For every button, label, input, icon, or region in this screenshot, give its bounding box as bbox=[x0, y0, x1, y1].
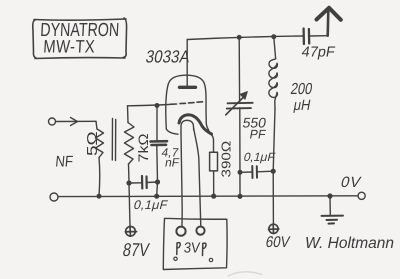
label 550 pF bbox=[241, 115, 267, 131]
wire coil node to 60V (crosses bus) bbox=[272, 171, 274, 224]
wire input with arrow bbox=[56, 120, 96, 122]
wire 550pF to bus bbox=[239, 108, 241, 196]
node 0.1uF right left-end bbox=[238, 171, 242, 175]
battery terminal left bbox=[176, 227, 185, 236]
label 47pF bbox=[300, 45, 336, 61]
filament thick arc bbox=[179, 115, 212, 134]
svg-text:60V: 60V bbox=[264, 234, 291, 251]
battery polarity mark left bbox=[177, 243, 180, 255]
NF label bbox=[55, 154, 74, 171]
node coil-0.1uF bbox=[271, 169, 275, 173]
wire filament to 390 resistor bbox=[211, 134, 214, 153]
battery terminal right bbox=[196, 227, 204, 235]
node grid / 4.7nF bbox=[155, 104, 159, 108]
node 0.1uF left bbox=[127, 181, 131, 185]
capacitor 0.1uF left bbox=[142, 176, 147, 189]
antenna bbox=[326, 11, 329, 36]
battery box bbox=[163, 218, 227, 269]
label 0V bbox=[339, 174, 363, 191]
svg-text:NF: NF bbox=[55, 154, 74, 171]
wire input corner down to primary bbox=[96, 121, 97, 129]
svg-text:MW-TX: MW-TX bbox=[43, 37, 96, 57]
title text DYNATRON bbox=[40, 19, 120, 40]
grid dashes bbox=[170, 102, 203, 105]
capacitor 0.1uF right bbox=[252, 166, 257, 178]
svg-text:0,1μF: 0,1μF bbox=[242, 150, 276, 164]
resistor 390 bbox=[210, 152, 218, 171]
tube label 3033A bbox=[144, 48, 191, 67]
wire to 550pF bbox=[238, 37, 240, 103]
terminal 60V bbox=[269, 224, 279, 234]
label 0.1uF left bbox=[132, 198, 169, 212]
svg-text:3033A: 3033A bbox=[144, 48, 191, 67]
NF input terminal top bbox=[49, 118, 56, 125]
terminal 87V bbox=[125, 227, 136, 237]
svg-text:47pF: 47pF bbox=[300, 45, 336, 61]
filament left leg to battery bbox=[181, 133, 182, 226]
transformer secondary winding 7k bbox=[125, 123, 135, 165]
wire grid horizontal bbox=[128, 105, 170, 106]
label 390ohm bbox=[219, 141, 234, 178]
variable capacitor 550pF plates bbox=[227, 103, 253, 109]
node primary-bus bbox=[97, 194, 101, 198]
wire 4.7nF to 0.1uF node bbox=[156, 145, 159, 182]
coil 200uH bbox=[274, 37, 276, 59]
svg-text:87V: 87V bbox=[121, 239, 151, 260]
label 0.1uF right bbox=[242, 150, 276, 164]
wire secondary top to grid bbox=[127, 106, 130, 123]
svg-text:0V: 0V bbox=[339, 174, 363, 191]
label 60V bbox=[264, 234, 291, 251]
label 4.7nF bbox=[160, 146, 179, 160]
svg-text:W. Holtmann: W. Holtmann bbox=[305, 235, 394, 252]
battery screw hole right bbox=[209, 258, 212, 261]
node top 550pF bbox=[237, 36, 241, 40]
label 200uH bbox=[289, 81, 313, 99]
anode wire up bbox=[186, 40, 188, 87]
svg-text:0,1μF: 0,1μF bbox=[132, 198, 169, 212]
svg-text:5Ω: 5Ω bbox=[83, 131, 101, 156]
wire grid node to 4.7nF bbox=[156, 106, 158, 142]
node 390-bus bbox=[212, 194, 216, 198]
top wire anode bus bbox=[187, 36, 296, 39]
label 87V bbox=[121, 239, 151, 260]
signature W.Holtmann bbox=[305, 235, 394, 252]
faint scan arc artifact bbox=[228, 272, 262, 276]
svg-text:390Ω: 390Ω bbox=[219, 141, 234, 178]
bottom bus 0V bbox=[58, 195, 358, 198]
transformer primary winding 5ohm bbox=[96, 129, 104, 158]
wire 390 to bus bbox=[213, 171, 215, 196]
tube envelope bbox=[166, 75, 212, 135]
battery label 3V bbox=[183, 239, 201, 256]
svg-text:3V: 3V bbox=[183, 239, 201, 256]
battery polarity mark right bbox=[203, 243, 207, 255]
0V terminal bbox=[358, 192, 365, 199]
svg-text:μH: μH bbox=[292, 96, 312, 113]
wire primary bottom to bus bbox=[98, 158, 101, 196]
node 0.1uF right to bus bbox=[156, 180, 160, 184]
variable capacitor arrow bbox=[226, 97, 244, 115]
ground bbox=[328, 194, 332, 198]
node top coil bbox=[272, 35, 276, 39]
tube envelope bottom left bbox=[166, 129, 178, 134]
capacitor 4.7nF bbox=[151, 141, 168, 145]
title text MW-TX bbox=[43, 37, 96, 57]
svg-text:nF: nF bbox=[164, 156, 180, 170]
NF input terminal bottom bbox=[50, 193, 58, 201]
filament hairpin bbox=[181, 120, 194, 133]
label 7kohm bbox=[136, 133, 151, 162]
anode plate bbox=[180, 86, 196, 89]
battery screw hole left bbox=[174, 257, 177, 260]
wire node down to 87V (crosses bus) bbox=[129, 183, 130, 227]
title box bbox=[33, 18, 127, 59]
label 5ohm bbox=[83, 131, 101, 156]
filament right leg to battery bbox=[194, 129, 201, 227]
svg-text:PF: PF bbox=[248, 128, 267, 142]
capacitor 47pF bbox=[304, 29, 310, 45]
node 550pF-bus bbox=[238, 194, 242, 198]
transformer core bbox=[111, 119, 113, 161]
wire secondary bottom down bbox=[128, 164, 131, 183]
svg-text:7kΩ: 7kΩ bbox=[136, 133, 151, 162]
